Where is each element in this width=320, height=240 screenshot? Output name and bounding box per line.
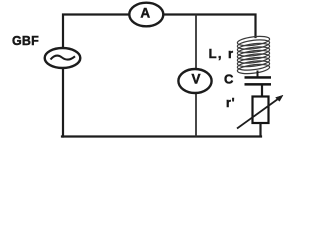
- wire capacitor to resistor: [261, 86, 263, 97]
- svg-text:V: V: [191, 71, 200, 86]
- svg-text:A: A: [140, 5, 150, 20]
- svg-text:C: C: [224, 72, 234, 87]
- ammeter A1: [129, 3, 163, 27]
- wire left vertical lower: [62, 69, 64, 137]
- svg-text:GBF: GBF: [12, 34, 39, 48]
- wire top-left horizontal: [63, 15, 130, 48]
- wire resistor bottom lead: [259, 123, 261, 137]
- generator GBF source symbol: [45, 48, 81, 68]
- wire voltmeter branch lower: [195, 94, 197, 137]
- arrow of variable resistor: [237, 95, 283, 128]
- svg-text:L, r: L, r: [209, 46, 235, 61]
- svg-text:r': r': [226, 96, 235, 110]
- wire top-right horizontal: [164, 15, 256, 38]
- wire coil bottom lead: [257, 71, 259, 77]
- inductor L coil: [237, 35, 270, 75]
- resistor r' variable: [253, 97, 269, 124]
- wire voltmeter branch upper: [195, 15, 197, 70]
- voltmeter V1: [178, 69, 211, 93]
- capacitor C plates: [245, 76, 272, 85]
- wire bottom horizontal: [62, 135, 261, 137]
